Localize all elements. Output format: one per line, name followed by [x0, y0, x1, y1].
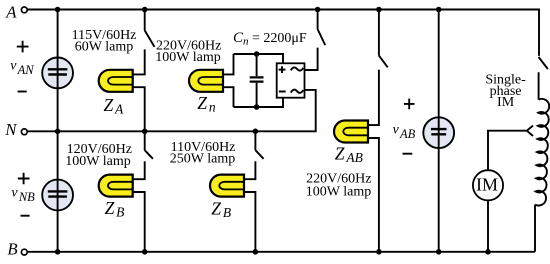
svg-text:ZA: ZA	[104, 95, 125, 117]
svg-text:N: N	[4, 120, 17, 139]
svg-text:100W lamp: 100W lamp	[306, 185, 371, 200]
svg-text:100W lamp: 100W lamp	[65, 154, 130, 169]
svg-text:ZAB: ZAB	[335, 144, 363, 166]
svg-text:100W lamp: 100W lamp	[155, 50, 220, 65]
svg-text:IM: IM	[476, 174, 498, 194]
svg-text:60W lamp: 60W lamp	[75, 40, 133, 55]
svg-text:vNB: vNB	[11, 186, 35, 205]
svg-text:ZB: ZB	[105, 198, 125, 220]
svg-text:B: B	[7, 240, 17, 259]
svg-text:Zn: Zn	[197, 93, 216, 115]
svg-text:A: A	[5, 3, 17, 22]
svg-text:IM: IM	[497, 95, 515, 110]
svg-text:vAN: vAN	[10, 59, 34, 78]
svg-text:vAB: vAB	[393, 122, 416, 141]
svg-text:250W lamp: 250W lamp	[170, 152, 235, 167]
svg-text:ZB: ZB	[211, 199, 231, 221]
svg-text:Cn = 2200μF: Cn = 2200μF	[233, 30, 307, 48]
